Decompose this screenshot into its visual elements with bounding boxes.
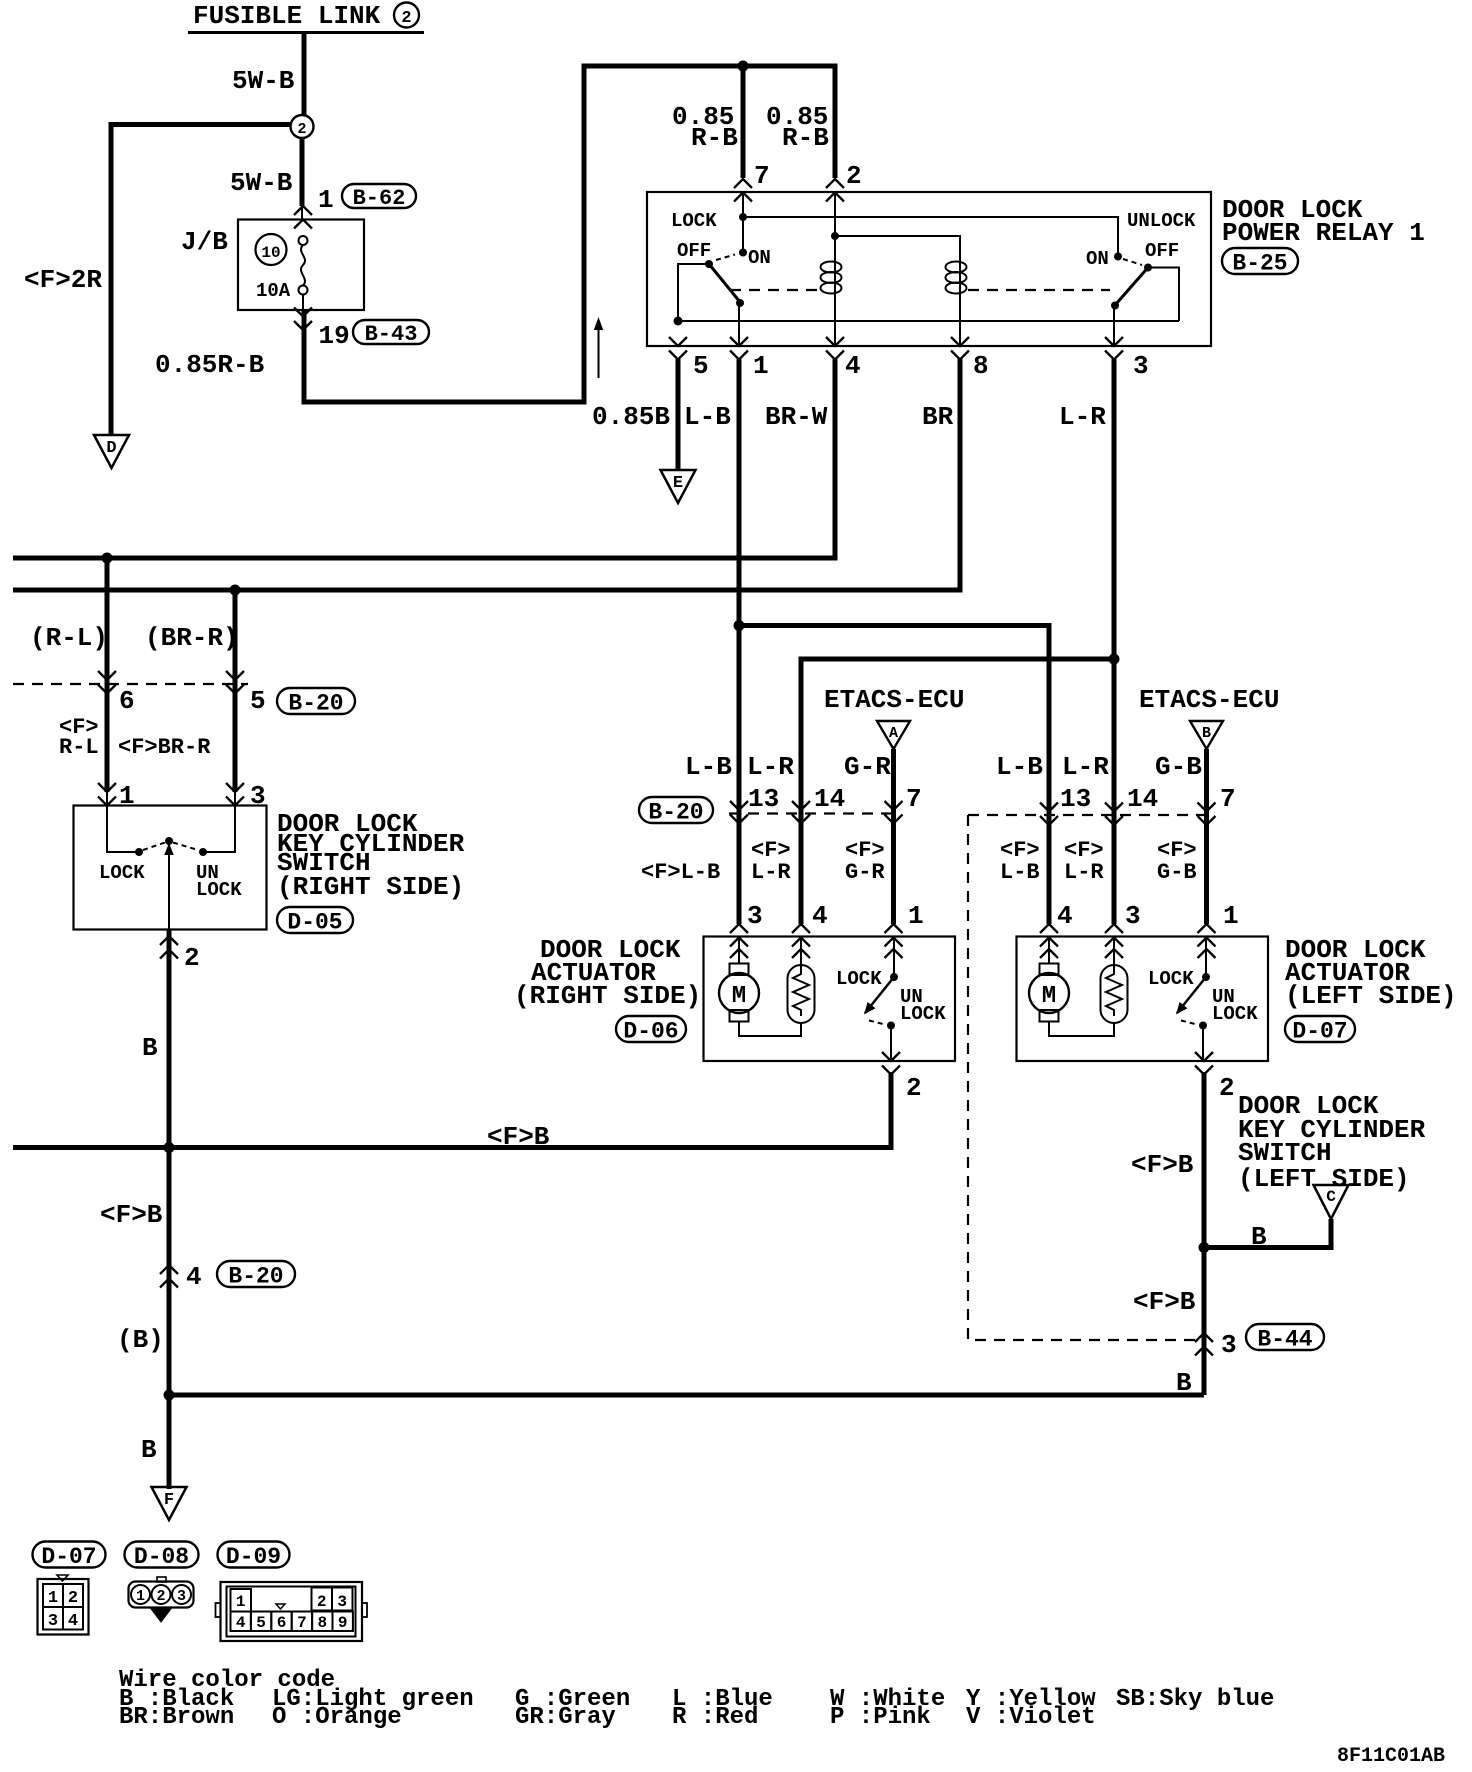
svg-text:D-05: D-05 — [287, 909, 342, 935]
svg-text:2: 2 — [317, 1593, 327, 1611]
svg-text:4: 4 — [1057, 901, 1073, 931]
svg-text:LOCK: LOCK — [1148, 968, 1194, 990]
actuator lock switch — [893, 937, 895, 978]
svg-text:SB:Sky blue: SB:Sky blue — [1116, 1686, 1274, 1713]
svg-text:2: 2 — [906, 1073, 922, 1103]
svg-text:3: 3 — [747, 901, 763, 931]
svg-text:C: C — [1326, 1188, 1336, 1206]
svg-text:J/B: J/B — [181, 227, 228, 257]
svg-text:B: B — [141, 1435, 157, 1465]
svg-text:3: 3 — [1125, 901, 1141, 931]
pin 5 of relay — [669, 337, 687, 346]
svg-text:(B): (B) — [117, 1325, 164, 1355]
wire LOCK to unlock-switch ON — [743, 217, 1118, 253]
ground D — [94, 435, 129, 468]
svg-text:LOCK: LOCK — [1212, 1003, 1258, 1025]
wire G-R from ETACS A — [891, 749, 896, 924]
wire relay pin1 L-B to right actuator — [737, 359, 742, 924]
svg-text:ETACS-ECU: ETACS-ECU — [1139, 685, 1279, 715]
svg-text:A: A — [889, 725, 898, 742]
relay coil K2 — [835, 236, 960, 346]
svg-text:L-B: L-B — [996, 752, 1043, 782]
svg-text:6: 6 — [277, 1614, 287, 1632]
node junction on F-B rail — [164, 1142, 175, 1153]
svg-text:L-R: L-R — [1059, 402, 1106, 432]
svg-text:1: 1 — [753, 351, 769, 381]
svg-text:5: 5 — [256, 1614, 266, 1632]
connector D-09 label — [218, 1542, 290, 1568]
motor M in actuator — [738, 937, 740, 965]
wire 5W-B to J/B — [300, 138, 305, 206]
svg-text:(BR-R): (BR-R) — [145, 623, 239, 653]
svg-text:G-R: G-R — [845, 860, 885, 885]
svg-text:(RIGHT SIDE): (RIGHT SIDE) — [277, 872, 464, 902]
svg-text:13: 13 — [1060, 784, 1091, 814]
svg-text:ON: ON — [1086, 248, 1109, 270]
svg-text:B-20: B-20 — [228, 1263, 283, 1289]
node junction R-L — [102, 553, 113, 564]
pin 4 door lock actuator left — [1040, 924, 1058, 933]
connector B-20 dashed boundary — [13, 683, 248, 685]
svg-text:7: 7 — [1220, 784, 1236, 814]
relay internal LOCK node — [742, 192, 744, 217]
svg-text:1: 1 — [48, 1589, 58, 1608]
svg-text:POWER RELAY 1: POWER RELAY 1 — [1222, 218, 1425, 248]
relay lock switch — [742, 217, 744, 250]
pin 2 key cylinder switch — [160, 936, 178, 945]
pin 1 connector B-62 — [294, 206, 312, 215]
wire L-R to left actuator — [1112, 659, 1117, 924]
svg-text:L-B: L-B — [684, 402, 731, 432]
svg-text:R-L: R-L — [59, 735, 99, 760]
svg-text:D-07: D-07 — [41, 1544, 96, 1570]
svg-text:<F>B: <F>B — [487, 1122, 550, 1152]
wire B down from key cylinder — [167, 930, 172, 1489]
svg-text:2: 2 — [68, 1589, 78, 1608]
wire relay pin 7 feed — [741, 64, 746, 178]
svg-text:L-B: L-B — [1000, 860, 1040, 885]
svg-text:8: 8 — [317, 1614, 327, 1632]
svg-text:5: 5 — [250, 686, 266, 716]
svg-text:<F>BR-R: <F>BR-R — [118, 735, 211, 760]
svg-text:L-R: L-R — [1062, 752, 1109, 782]
svg-text:B: B — [1251, 1222, 1267, 1252]
pin 1 key cylinder switch — [106, 792, 108, 806]
svg-text:4: 4 — [812, 901, 828, 931]
svg-text:8: 8 — [973, 351, 989, 381]
relay unlock switch — [1114, 253, 1122, 261]
key cylinder switch contacts — [107, 806, 139, 853]
pin 8 of relay — [951, 337, 969, 346]
svg-text:0.85R-B: 0.85R-B — [155, 350, 265, 380]
svg-text:L-B: L-B — [685, 752, 732, 782]
wire BR rail — [13, 359, 960, 590]
svg-text:D-07: D-07 — [1292, 1018, 1347, 1044]
pin 2 door lock actuator right — [882, 1052, 900, 1061]
pin 5 connector B-20 — [226, 671, 244, 680]
svg-text:UNLOCK: UNLOCK — [1127, 210, 1196, 232]
pin 1 door lock actuator right — [885, 924, 903, 933]
svg-text:LOCK: LOCK — [99, 862, 145, 884]
pin 6 connector B-20 — [98, 671, 116, 680]
svg-text:2: 2 — [156, 1588, 165, 1605]
wire BR-R drop — [233, 590, 238, 792]
svg-text:B: B — [1202, 725, 1211, 742]
svg-text:E: E — [673, 474, 683, 493]
svg-text:4: 4 — [68, 1612, 78, 1631]
wire G-B from ETACS B — [1204, 749, 1209, 924]
node junction BR-R — [230, 585, 241, 596]
wire F-B from left actuator pin2 — [1202, 1072, 1207, 1395]
svg-text:R :Red: R :Red — [672, 1704, 758, 1731]
svg-text:9: 9 — [338, 1614, 348, 1632]
pin 13 connector left — [1040, 803, 1058, 812]
svg-text:B-20: B-20 — [288, 690, 343, 716]
svg-text:2: 2 — [1219, 1073, 1235, 1103]
svg-text:OFF: OFF — [1145, 240, 1179, 262]
pin 1 door lock actuator left — [1198, 924, 1216, 933]
pin 3 connector B-44 — [1195, 1333, 1213, 1342]
wire key cylinder common — [168, 841, 170, 930]
wire 0.85R-B to relay supply — [302, 294, 304, 310]
pin 4 door lock actuator right — [792, 924, 810, 933]
svg-text:4: 4 — [236, 1614, 246, 1632]
svg-text:(RIGHT SIDE): (RIGHT SIDE) — [514, 981, 701, 1011]
svg-text:(LEFT SIDE): (LEFT SIDE) — [1285, 981, 1457, 1011]
svg-text:6: 6 — [119, 686, 135, 716]
svg-text:<F>2R: <F>2R — [24, 265, 102, 295]
svg-text:2: 2 — [401, 9, 411, 28]
svg-text:1: 1 — [136, 1588, 145, 1605]
wire relay pin3 L-R drop — [1112, 359, 1117, 659]
svg-text:14: 14 — [1127, 784, 1158, 814]
svg-text:BR-W: BR-W — [765, 402, 828, 432]
svg-text:B-43: B-43 — [365, 322, 418, 347]
svg-text:ETACS-ECU: ETACS-ECU — [824, 685, 964, 715]
connector D-07 label — [33, 1542, 106, 1568]
svg-text:G-R: G-R — [844, 752, 891, 782]
svg-text:P :Pink: P :Pink — [830, 1704, 931, 1731]
svg-text:R-B: R-B — [782, 123, 829, 153]
pin 7 of relay — [734, 179, 752, 188]
svg-text:2: 2 — [297, 121, 306, 138]
svg-text:5: 5 — [693, 351, 709, 381]
pin 7 connector B-20 — [885, 801, 903, 810]
wire F-B from right actuator pin2 — [889, 1072, 894, 1150]
pin 19 connector B-43 — [294, 308, 312, 317]
svg-text:B-20: B-20 — [648, 799, 703, 825]
svg-text:<F>B: <F>B — [1131, 1150, 1194, 1180]
node C to key cylinder left — [1314, 1185, 1349, 1219]
actuator lock switch — [1205, 937, 1207, 978]
svg-text:BR:Brown: BR:Brown — [119, 1704, 234, 1731]
connector B-20 dashed boundary actuators — [729, 812, 894, 814]
wire F-B rail — [13, 1145, 891, 1150]
svg-text:10: 10 — [261, 244, 280, 262]
connector D-08 pinout — [129, 1582, 194, 1608]
wire BR-W rail — [13, 359, 835, 558]
svg-text:8F11C01AB: 8F11C01AB — [1337, 1745, 1445, 1768]
door lock key cylinder switch right side D-05 — [74, 806, 267, 930]
svg-text:L-R: L-R — [1064, 860, 1104, 885]
up arrow 0.85B — [598, 327, 600, 378]
svg-text:LOCK: LOCK — [836, 968, 882, 990]
resistor in actuator — [1113, 937, 1115, 966]
svg-text:0.85B: 0.85B — [592, 402, 670, 432]
pin 3 key cylinder switch — [234, 792, 236, 806]
node relay common rail — [674, 317, 683, 326]
node junction L-B — [734, 620, 745, 631]
fuse 10A — [299, 236, 308, 245]
svg-text:FUSIBLE LINK: FUSIBLE LINK — [193, 1, 381, 31]
pin 3 of relay — [1105, 337, 1123, 346]
svg-text:3: 3 — [177, 1588, 186, 1605]
svg-text:5W-B: 5W-B — [230, 168, 293, 198]
svg-text:B-25: B-25 — [1232, 250, 1287, 276]
svg-text:OFF: OFF — [677, 240, 711, 262]
door lock actuator left side D-07 — [1017, 937, 1269, 1062]
door lock actuator right side D-06 — [704, 937, 956, 1062]
svg-text:3: 3 — [1133, 351, 1149, 381]
svg-text:2: 2 — [846, 161, 862, 191]
svg-text:<F>B: <F>B — [100, 1200, 163, 1230]
svg-text:B-62: B-62 — [353, 186, 406, 211]
wire L-R branch to right actuator — [801, 659, 1114, 924]
svg-text:LOCK: LOCK — [900, 1003, 946, 1025]
wire L-B branch to left actuator — [739, 626, 1049, 925]
svg-text:3: 3 — [337, 1593, 347, 1611]
wire pin5 to ground E — [676, 359, 681, 471]
wire ground rail to B-44 — [169, 1393, 1204, 1398]
fuse 10 label — [256, 234, 287, 265]
svg-text:O :Orange: O :Orange — [272, 1704, 402, 1731]
pin 4 connector B-20 — [160, 1265, 178, 1274]
wire B from C triangle — [1204, 1219, 1331, 1248]
svg-text:V :Violet: V :Violet — [966, 1704, 1096, 1731]
wire 5W-B from fusible link — [302, 34, 307, 116]
svg-text:3: 3 — [1221, 1330, 1237, 1360]
svg-text:14: 14 — [814, 784, 845, 814]
relay coil K1 — [831, 232, 839, 240]
svg-text:4: 4 — [186, 1262, 202, 1292]
wire to ground D — [111, 122, 291, 127]
svg-text:B-44: B-44 — [1257, 1326, 1312, 1352]
junction block J/B — [238, 220, 364, 311]
svg-text:3: 3 — [48, 1612, 58, 1631]
pin 3 door lock actuator right — [730, 924, 748, 933]
pin 13 connector B-20 — [730, 801, 748, 810]
svg-text:<F>B: <F>B — [1133, 1287, 1196, 1317]
svg-text:LOCK: LOCK — [196, 879, 242, 901]
svg-text:B: B — [142, 1033, 158, 1063]
svg-text:10A: 10A — [256, 280, 291, 302]
svg-text:R-B: R-B — [691, 123, 738, 153]
svg-text:13: 13 — [748, 784, 779, 814]
wire R-L drop — [105, 558, 110, 792]
connector B-44 dashed boundary — [968, 815, 1198, 1340]
pin 3 door lock actuator left — [1105, 924, 1123, 933]
svg-text:ON: ON — [748, 247, 771, 269]
pin 2 door lock actuator left — [1195, 1052, 1213, 1061]
motor M in actuator — [1048, 937, 1050, 965]
relay U1 box DOOR LOCK POWER RELAY 1 — [647, 192, 1211, 346]
svg-text:GR:Gray: GR:Gray — [515, 1704, 616, 1731]
svg-text:F: F — [164, 1491, 174, 1510]
svg-text:G-B: G-B — [1155, 752, 1202, 782]
pin 7 connector left — [1198, 803, 1216, 812]
svg-text:4: 4 — [845, 351, 861, 381]
svg-text:7: 7 — [754, 161, 770, 191]
svg-text:BR: BR — [922, 402, 954, 432]
svg-text:(LEFT SIDE): (LEFT SIDE) — [1238, 1164, 1410, 1194]
connector D-08 label — [125, 1542, 199, 1568]
resistor in actuator — [800, 937, 802, 966]
svg-text:LOCK: LOCK — [671, 210, 717, 232]
svg-text:M: M — [1042, 983, 1056, 1010]
node junction on ground rail — [164, 1390, 175, 1401]
svg-text:D-08: D-08 — [134, 1544, 189, 1570]
svg-text:M: M — [732, 983, 746, 1010]
ground E — [661, 470, 696, 503]
connector D-07 pinout — [38, 1579, 89, 1635]
svg-text:5W-B: 5W-B — [232, 66, 295, 96]
svg-text:D: D — [106, 439, 116, 458]
svg-text:1: 1 — [908, 901, 924, 931]
svg-text:(R-L): (R-L) — [30, 623, 108, 653]
pin 14 connector B-20 — [792, 801, 810, 810]
svg-text:L-R: L-R — [747, 752, 794, 782]
svg-text:G-B: G-B — [1157, 860, 1197, 885]
svg-text:2: 2 — [184, 943, 200, 973]
node splice 2 — [291, 115, 314, 138]
node junction L-R — [1109, 654, 1120, 665]
wire lock switch to pin 1 — [738, 303, 740, 346]
node junction on supply wire — [738, 61, 749, 72]
svg-text:7: 7 — [906, 784, 922, 814]
svg-text:1: 1 — [236, 1593, 246, 1611]
pin 14 connector left — [1105, 803, 1123, 812]
svg-text:7: 7 — [297, 1614, 307, 1632]
connector D-09 pinout — [221, 1582, 363, 1641]
svg-text:D-09: D-09 — [226, 1544, 281, 1570]
pin 4 of relay — [826, 337, 844, 346]
svg-text:B: B — [1176, 1368, 1192, 1398]
svg-text:L-R: L-R — [751, 860, 791, 885]
svg-text:1: 1 — [318, 185, 334, 215]
svg-text:D-06: D-06 — [623, 1018, 678, 1044]
pin 2 of relay — [826, 179, 844, 188]
node junction on F-B wire — [1199, 1242, 1210, 1253]
svg-text:<F>L-B: <F>L-B — [641, 860, 720, 885]
svg-text:19: 19 — [319, 321, 350, 351]
svg-text:1: 1 — [1223, 901, 1239, 931]
pin 1 of relay — [730, 337, 748, 346]
ground F — [152, 1487, 187, 1520]
